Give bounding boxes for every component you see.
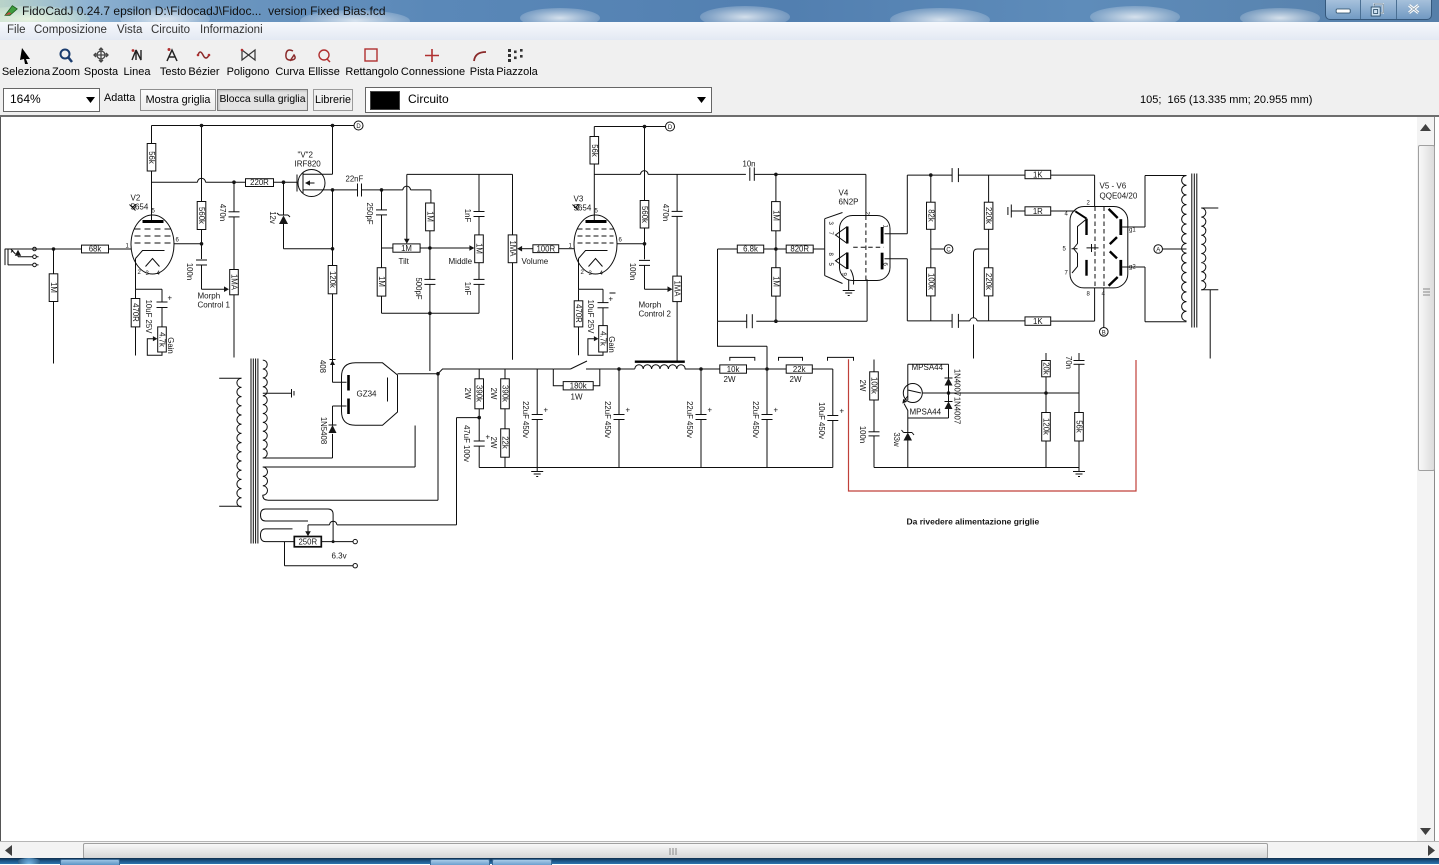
svg-text:100n: 100n xyxy=(628,263,637,280)
capacitor 22uF 450v #4 xyxy=(766,369,768,468)
svg-text:220k: 220k xyxy=(984,207,993,224)
svg-text:56k: 56k xyxy=(147,151,156,164)
diode 1N4007 (upper) xyxy=(948,364,950,378)
node C terminal xyxy=(931,248,945,250)
svg-text:Tilt: Tilt xyxy=(399,257,410,266)
winding4 hairpin xyxy=(261,529,293,542)
svg-text:B: B xyxy=(1102,330,1106,336)
wire 47uF top to heater line xyxy=(457,418,480,525)
svg-text:33w: 33w xyxy=(892,432,901,447)
resistor 220R xyxy=(246,179,274,187)
tube GZ34 envelope xyxy=(342,363,398,426)
svg-text:+: + xyxy=(609,295,614,304)
svg-text:4.7k: 4.7k xyxy=(599,331,608,346)
wire tone top rail xyxy=(407,174,513,239)
svg-text:12v: 12v xyxy=(268,211,277,224)
tube V5-V6 QQE04/20 envelope xyxy=(1070,207,1128,288)
resistor 470R (V3 cathode) xyxy=(578,289,580,355)
wire hop over bias drop xyxy=(970,318,977,321)
resistor 22k 2W (divider) xyxy=(501,429,510,457)
svg-text:47uF 100v: 47uF 100v xyxy=(462,425,471,462)
resistor 82k xyxy=(930,175,932,268)
svg-text:1M: 1M xyxy=(771,210,780,221)
bracket 1 xyxy=(730,357,755,360)
svg-text:1K: 1K xyxy=(1033,170,1043,179)
wire bias tap to PI xyxy=(974,249,989,359)
svg-text:GZ34: GZ34 xyxy=(357,390,378,399)
node junction 470n top xyxy=(232,180,236,184)
svg-text:2W: 2W xyxy=(489,437,498,449)
svg-text:MPSA44: MPSA44 xyxy=(910,408,942,417)
svg-text:+: + xyxy=(626,406,631,415)
svg-text:20k: 20k xyxy=(1042,362,1051,375)
capacitor 22uF 450v #1 xyxy=(536,369,538,468)
svg-text:500pF: 500pF xyxy=(414,277,423,299)
svg-text:22k: 22k xyxy=(501,436,510,449)
svg-text:Volume: Volume xyxy=(522,257,549,266)
tube V4 plate bars xyxy=(881,227,884,244)
svg-text:1nF: 1nF xyxy=(463,282,472,296)
capacitor 47uF 100v xyxy=(478,418,480,468)
wire tone bottom xyxy=(382,312,480,314)
svg-text:180k: 180k xyxy=(570,382,587,391)
tube V2 cathode xyxy=(136,251,165,265)
svg-text:+: + xyxy=(168,294,173,303)
node heater junction xyxy=(332,540,335,543)
ground main xyxy=(531,468,543,477)
capacitor 10uF 25V (V3) xyxy=(602,289,604,325)
capacitor 470n (V3) xyxy=(676,174,678,276)
svg-text:250pF: 250pF xyxy=(365,202,374,224)
node Tilt right junction xyxy=(428,246,432,250)
node diode junction xyxy=(947,391,951,395)
svg-text:5: 5 xyxy=(1063,247,1067,253)
resistor 470R (V2 cathode) xyxy=(135,289,137,355)
resistor 560k (V3) xyxy=(644,127,646,260)
diode 1N4007 (lower) xyxy=(945,402,953,410)
resistor 1M (V4 bottom) xyxy=(775,249,777,321)
bracket 2 xyxy=(779,357,803,360)
svg-text:Morph: Morph xyxy=(198,292,221,301)
svg-text:1M: 1M xyxy=(475,243,484,254)
wire middle wiper xyxy=(430,247,470,249)
tube V2 5654 envelope xyxy=(131,215,174,274)
potentiometer 1M Middle xyxy=(475,235,484,263)
svg-text:820R: 820R xyxy=(790,245,809,254)
zener 33v xyxy=(904,433,913,441)
capacitor 10uF 450v xyxy=(832,369,834,468)
terminal 6.3v b xyxy=(353,564,357,568)
wire Z-link to B+ rail xyxy=(718,321,768,369)
tube GZ34 plates xyxy=(347,375,350,391)
capacitor 10uF 25V (V2) xyxy=(161,289,163,327)
svg-text:+: + xyxy=(840,407,845,416)
resistor 22k 2W xyxy=(786,365,812,373)
node bias divider xyxy=(1044,391,1048,395)
svg-text:1MA: 1MA xyxy=(508,240,517,257)
wire V5 plate top loop xyxy=(1121,176,1187,228)
node B+ takeoff xyxy=(436,372,440,376)
svg-text:10n: 10n xyxy=(743,160,756,169)
wire Q1 base lead xyxy=(908,364,949,386)
resistor 100k 2W (bias) xyxy=(873,360,875,432)
capacitor g2 feed xyxy=(1007,207,1009,215)
node 560k top xyxy=(200,124,204,128)
svg-text:2W: 2W xyxy=(463,388,472,400)
resistor 100R xyxy=(522,248,533,250)
transformer PT core xyxy=(251,359,258,544)
resistor 1K (bottom) xyxy=(1025,317,1051,325)
potentiometer 1MA (Morph Control 1) xyxy=(230,270,239,295)
resistor 1M (V4 top) xyxy=(775,174,777,249)
wire HV center tap + ground xyxy=(263,389,294,398)
svg-text:V3: V3 xyxy=(574,195,584,204)
ground bias xyxy=(1073,472,1085,477)
capacitor 70n xyxy=(1074,360,1085,362)
resistor 1M (input) xyxy=(53,249,55,364)
diode 1N5408 xyxy=(329,425,337,433)
diode 408 (HV) xyxy=(330,359,336,361)
svg-text:22k: 22k xyxy=(793,365,806,374)
tube V4 center dashed xyxy=(853,216,883,281)
svg-text:22uF 450v: 22uF 450v xyxy=(751,401,760,438)
svg-text:120k: 120k xyxy=(1042,418,1051,435)
wire lower rail xyxy=(479,467,833,469)
tube V4 grid zigzags xyxy=(836,227,848,270)
wire winding2 5V leads xyxy=(263,426,415,468)
svg-text:390k: 390k xyxy=(475,385,484,402)
svg-text:D: D xyxy=(356,124,361,130)
trimmer 4.7k (V2 gain) xyxy=(158,327,167,352)
svg-text:68k: 68k xyxy=(89,245,102,254)
svg-text:2: 2 xyxy=(138,270,142,276)
wire GZ34 upper plate feed xyxy=(333,360,347,382)
switch standby xyxy=(553,361,587,369)
transistor Q1 MPSA44 xyxy=(903,384,922,403)
wire V4 bottom plate out xyxy=(885,259,953,321)
node D terminal 2 xyxy=(666,122,675,131)
wire Tilt left to 1M leg xyxy=(382,215,393,268)
resistor 180k 1W bypass xyxy=(553,369,600,386)
svg-text:390k: 390k xyxy=(501,385,510,402)
trimmer 4.7k (V3 gain) xyxy=(599,326,608,352)
svg-text:6N2P: 6N2P xyxy=(839,198,859,207)
tube V4 grid bars xyxy=(846,227,848,244)
bracket 3 xyxy=(828,357,854,360)
svg-text:6.8k: 6.8k xyxy=(743,245,758,254)
wire B+ rail xyxy=(438,369,833,374)
transformer OT core xyxy=(1192,174,1197,328)
svg-text:V5 - V6: V5 - V6 xyxy=(1100,182,1127,191)
resistor 220k (bottom) xyxy=(984,268,993,296)
tube V2 pin7 tick xyxy=(130,205,136,211)
resistor 1M (middle top) xyxy=(429,231,431,280)
resistor 390k 2W (second) xyxy=(504,369,506,429)
svg-text:2: 2 xyxy=(1087,201,1091,207)
svg-text:100k: 100k xyxy=(870,377,879,394)
svg-text:Morph: Morph xyxy=(639,301,662,310)
svg-text:1M: 1M xyxy=(49,282,58,293)
svg-text:470R: 470R xyxy=(131,303,140,322)
wire GZ34 cathode out to B+ xyxy=(398,373,439,375)
node pin6/560k junction xyxy=(200,242,204,246)
potentiometer 1M Tilt xyxy=(393,244,420,252)
svg-text:2: 2 xyxy=(864,212,870,216)
wire hop over 560k V3 feed xyxy=(641,171,649,175)
resistor 1K (top) xyxy=(1025,170,1051,178)
node input junction xyxy=(52,247,56,251)
svg-text:+: + xyxy=(774,406,779,415)
svg-text:7: 7 xyxy=(827,232,833,236)
arrow onto 250R xyxy=(307,525,309,532)
svg-text:5: 5 xyxy=(595,209,599,215)
tube GZ34 cathode bar xyxy=(387,378,389,402)
capacitor 250pF xyxy=(381,190,383,248)
potentiometer 1MA (Morph Control 2) xyxy=(673,276,682,302)
node V4 grid junction xyxy=(774,247,778,251)
svg-text:+: + xyxy=(544,406,549,415)
svg-text:470n: 470n xyxy=(218,204,227,221)
svg-text:Control 1: Control 1 xyxy=(198,301,231,310)
wire hop at 560k crossing xyxy=(198,178,206,182)
wire B+ rail V2 xyxy=(152,125,354,127)
wire bias bottom rail xyxy=(874,467,1079,469)
choke L1 xyxy=(635,365,685,369)
svg-text:+: + xyxy=(708,406,713,415)
capacitor 1nF (middle bottom) xyxy=(478,263,480,314)
resistor 250R xyxy=(294,537,321,547)
capacitor 100n (V3) xyxy=(639,259,650,261)
resistor 56k (V2 plate) xyxy=(151,126,153,222)
svg-text:120k: 120k xyxy=(328,271,337,288)
zener 12v xyxy=(283,182,285,215)
resistor 6.8k xyxy=(737,245,763,253)
node 250pF tap xyxy=(380,188,384,192)
tube V4 grid box trapezoid xyxy=(825,213,843,284)
wire input to grid xyxy=(5,248,131,250)
capacitor 1nF (middle top) xyxy=(478,174,480,235)
capacitor V4 bottom left xyxy=(746,314,748,328)
svg-text:100n: 100n xyxy=(858,426,867,443)
wire 6.8k input xyxy=(718,249,738,321)
wire V5 plate bottom loop xyxy=(1121,267,1187,322)
svg-text:408: 408 xyxy=(318,360,327,373)
potentiometer 1MA Volume xyxy=(512,174,514,359)
svg-text:560k: 560k xyxy=(197,207,206,224)
wire V4 top plate out xyxy=(885,175,953,234)
svg-text:6: 6 xyxy=(176,238,180,244)
svg-text:1M: 1M xyxy=(377,276,386,287)
tube V2 heater xyxy=(146,259,160,267)
svg-text:5: 5 xyxy=(827,263,833,267)
svg-text:Middle: Middle xyxy=(449,257,473,266)
node 82k top xyxy=(929,173,933,177)
svg-text:1MA: 1MA xyxy=(230,274,239,291)
svg-text:IRF820: IRF820 xyxy=(295,160,322,169)
capacitor 100n (V2) xyxy=(196,259,207,261)
resistor 820R xyxy=(786,245,813,253)
wire diode to GZ34 lower plate xyxy=(333,406,347,425)
svg-text:3: 3 xyxy=(827,222,833,226)
wire 220R to gate xyxy=(274,181,298,183)
tube V4 6N2P envelope xyxy=(840,216,891,281)
svg-text:1R: 1R xyxy=(1033,207,1043,216)
svg-text:1M: 1M xyxy=(401,244,412,253)
terminal 6.3v a xyxy=(353,539,357,543)
svg-text:100n: 100n xyxy=(185,263,194,280)
node 1M V4 top xyxy=(774,173,778,177)
svg-text:70n: 70n xyxy=(1064,356,1073,369)
svg-text:22uF 450v: 22uF 450v xyxy=(603,401,612,438)
tube V2 grids dashed xyxy=(135,229,171,243)
wire V3 plate coupling line xyxy=(594,173,746,175)
capacitor 500pF xyxy=(424,278,435,280)
svg-text:560k: 560k xyxy=(640,206,649,223)
svg-text:470R: 470R xyxy=(574,304,583,323)
wire B+ down to HV winding top xyxy=(268,374,439,501)
tube V5 cathode zigzag xyxy=(1072,219,1087,273)
svg-text:1M: 1M xyxy=(425,211,434,222)
tube V5 grid lead diagonal xyxy=(1076,211,1087,218)
tube V4 cathode xyxy=(851,270,854,285)
tube V3 heater xyxy=(589,259,603,267)
transformer OT primary xyxy=(1182,176,1187,322)
wire V4 cathode line xyxy=(718,279,868,321)
node A terminal xyxy=(1154,245,1163,254)
svg-text:2W: 2W xyxy=(790,375,802,384)
svg-text:4.7k: 4.7k xyxy=(158,332,167,347)
tube V5 dashed screens xyxy=(1095,207,1104,288)
svg-text:4: 4 xyxy=(1065,212,1069,218)
resistor 120k (bias) xyxy=(1045,393,1047,413)
svg-text:C: C xyxy=(946,248,951,254)
tube V3 5654 envelope xyxy=(574,215,617,274)
node 560k V3 top xyxy=(643,125,647,129)
tube V3 plate bar xyxy=(586,220,607,223)
svg-text:"V"2: "V"2 xyxy=(298,151,314,160)
transformer OT secondary xyxy=(1201,208,1206,290)
svg-text:Da rivedere alimentazione grig: Da rivedere alimentazione griglie xyxy=(907,517,1040,527)
wire 22nF output to 1M, hop over tilt wiper xyxy=(411,190,431,203)
tube V3 pin7 tick xyxy=(573,205,579,211)
svg-text:2W: 2W xyxy=(489,388,498,400)
svg-text:7: 7 xyxy=(1065,271,1069,277)
node source junction xyxy=(331,188,335,192)
svg-text:1N5408: 1N5408 xyxy=(319,417,328,444)
tube V5 grid bars xyxy=(1085,219,1087,235)
resistor 20k xyxy=(1045,353,1047,361)
svg-text:Gain: Gain xyxy=(166,337,175,353)
resistor 560k (V2) xyxy=(201,126,203,260)
red highlight box xyxy=(849,359,1137,491)
svg-text:6: 6 xyxy=(619,238,623,244)
svg-text:100k: 100k xyxy=(926,273,935,290)
capacitor 100n (bias) xyxy=(869,431,880,433)
resistor 1M (tilt bottom) xyxy=(377,268,386,296)
resistor 390k 2W (first) xyxy=(478,369,480,418)
svg-text:220R: 220R xyxy=(250,178,269,187)
svg-text:10uF 25V: 10uF 25V xyxy=(586,300,595,335)
input jack contacts xyxy=(33,247,37,251)
capacitor 470n (V2) xyxy=(233,182,235,269)
wire V2 pin6 xyxy=(174,243,202,245)
svg-text:1N4007: 1N4007 xyxy=(953,369,962,396)
resistor 120k xyxy=(332,190,334,382)
svg-text:8: 8 xyxy=(827,253,833,257)
tube V3 grids dashed xyxy=(578,229,614,243)
svg-text:2W: 2W xyxy=(724,375,736,384)
node B terminal xyxy=(1103,288,1105,328)
wire PT primary leads xyxy=(219,378,241,506)
node D terminal 1 xyxy=(354,121,363,130)
svg-text:1M: 1M xyxy=(771,276,780,287)
svg-text:10uF 25V: 10uF 25V xyxy=(144,300,153,335)
svg-text:56k: 56k xyxy=(1075,420,1084,433)
wire B+ rail V3 xyxy=(594,126,665,128)
wire HV bottom to diode xyxy=(263,434,333,458)
svg-text:2W: 2W xyxy=(858,380,867,392)
svg-text:V2: V2 xyxy=(131,194,141,203)
transistor "V"2 IRF820 xyxy=(298,170,325,197)
tube V5 plate bars xyxy=(1109,209,1118,218)
capacitor 22uF 450v #3 xyxy=(700,369,702,468)
resistor 10k 2W xyxy=(720,365,747,373)
svg-text:56k: 56k xyxy=(590,144,599,157)
wire 250R to terminals xyxy=(285,542,354,566)
svg-text:1MA: 1MA xyxy=(673,280,682,297)
svg-text:22nF: 22nF xyxy=(346,175,364,184)
tube V2 plate bar xyxy=(143,220,164,223)
resistor 56k (bias) xyxy=(1075,413,1084,442)
tube V5 heater mark xyxy=(1087,244,1099,252)
capacitor coupling top xyxy=(951,168,953,182)
svg-text:QQE04/20: QQE04/20 xyxy=(1100,192,1138,201)
svg-text:10k: 10k xyxy=(727,365,740,374)
svg-text:1N4007: 1N4007 xyxy=(953,397,962,424)
wire V2 plate node xyxy=(152,181,246,183)
wire Q1 emitter arrow xyxy=(904,396,908,401)
svg-text:1nF: 1nF xyxy=(463,209,472,223)
wire V3 pin6 xyxy=(617,243,645,245)
resistor 100k xyxy=(927,268,936,296)
winding3 6.3V hairpin xyxy=(261,509,334,542)
svg-text:V4: V4 xyxy=(839,189,849,198)
svg-text:10uF 450v: 10uF 450v xyxy=(817,402,826,439)
wire V2 cathode drop xyxy=(136,265,163,290)
ground V4 cathode xyxy=(843,279,855,295)
svg-text:9: 9 xyxy=(841,273,847,277)
capacitor coupling bottom xyxy=(951,314,953,328)
svg-text:220k: 220k xyxy=(984,273,993,290)
svg-text:250R: 250R xyxy=(298,538,317,547)
svg-text:6.3v: 6.3v xyxy=(332,552,347,561)
svg-text:5: 5 xyxy=(152,209,156,215)
node 47uF junction xyxy=(477,416,481,420)
svg-text:82k: 82k xyxy=(926,209,935,222)
transformer PT primary xyxy=(237,378,242,507)
capacitor 22uF 450v #2 xyxy=(618,369,620,468)
svg-text:22uF 450v: 22uF 450v xyxy=(685,401,694,438)
svg-text:D: D xyxy=(668,125,673,131)
winding2 coil bumps xyxy=(263,467,268,500)
node gate/zener junction xyxy=(282,180,286,184)
input jack J1 xyxy=(5,249,8,265)
svg-text:1W: 1W xyxy=(571,393,583,402)
node rail junctions xyxy=(617,367,621,371)
node pin6 junction V3 xyxy=(643,242,647,246)
wire OT secondary leads xyxy=(1201,208,1218,359)
svg-text:Control 2: Control 2 xyxy=(639,310,672,319)
